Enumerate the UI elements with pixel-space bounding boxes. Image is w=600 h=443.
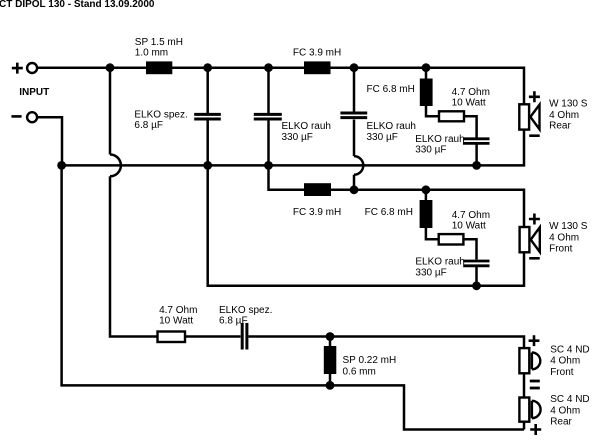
- wire left column down to bottom rail and jog to rear tweeter: [62, 165, 524, 429]
- node on front bottom rail at C5: [472, 281, 481, 290]
- svg-text:FC 6.8 mH: FC 6.8 mH: [367, 84, 415, 95]
- svg-text:SC 4 ND: SC 4 ND: [550, 344, 589, 355]
- svg-text:SP 0.22 mH: SP 0.22 mH: [343, 355, 397, 366]
- capacitor C1 ELKO spez 6.8uF (horizontal plates): [194, 114, 221, 119]
- plus sign front woofer: [529, 214, 540, 225]
- wire ELKO rauh C3 top lead: [353, 68, 356, 112]
- resistor 4.7 Ohm rear: [439, 111, 464, 121]
- wire ELKO rauh C2 top lead: [267, 68, 270, 113]
- svg-text:SC 4 ND: SC 4 ND: [550, 394, 589, 405]
- wire crossover hop of C3 lead over minus rail: [354, 156, 363, 175]
- svg-text:Front: Front: [550, 367, 574, 378]
- wire ELKO rauh C2 bottom lead: [267, 120, 270, 165]
- wire top rail from input plus to rear woofer top lead: [38, 68, 525, 105]
- node on minus rail at C2 / front rail tap: [264, 161, 273, 170]
- tweeter SC 4 ND front: [519, 348, 540, 373]
- svg-text:330 µF: 330 µF: [415, 145, 446, 156]
- svg-text:Front: Front: [549, 244, 573, 255]
- svg-text:ELKO spez.: ELKO spez.: [134, 109, 187, 120]
- wire ELKO rauh C3 bottom lead lower part: [353, 175, 356, 190]
- svg-text:4.7 Ohm: 4.7 Ohm: [452, 87, 490, 98]
- minus sign front woofer: [529, 257, 540, 260]
- svg-text:ELKO rauh: ELKO rauh: [367, 121, 416, 132]
- minus sign rear tweeter: [530, 387, 540, 390]
- tweeter SC 4 ND rear: [519, 398, 540, 422]
- speaker W 130 S rear: [519, 104, 539, 129]
- inductor FC 3.9 mH front: [304, 183, 331, 196]
- node on top rail at FC6.8 rear: [422, 63, 431, 72]
- svg-text:10 Watt: 10 Watt: [452, 220, 486, 231]
- wire link between front and rear tweeters: [523, 373, 526, 397]
- svg-text:FC 6.8 mH: FC 6.8 mH: [365, 207, 413, 218]
- node on minus rail at C4: [472, 161, 481, 170]
- node on top rail at plus branch: [106, 63, 115, 72]
- inductor SP 1.5 mH: [146, 61, 172, 74]
- capacitor C2 ELKO rauh 330uF (horizontal plates): [254, 114, 282, 119]
- inductor FC 6.8 mH front (vertical): [420, 200, 433, 228]
- svg-text:6.8 µF: 6.8 µF: [134, 120, 163, 131]
- svg-text:1.0 mm: 1.0 mm: [135, 48, 168, 59]
- svg-text:ELKO rauh: ELKO rauh: [415, 257, 464, 268]
- svg-text:ELKO rauh: ELKO rauh: [282, 121, 331, 132]
- minus sign input: [11, 115, 21, 118]
- wire ELKO rauh C3 bottom lead upper part: [353, 120, 356, 157]
- plus sign rear woofer: [529, 91, 540, 102]
- svg-text:330 µF: 330 µF: [282, 132, 313, 143]
- wire C4 bottom lead to minus rail: [475, 145, 478, 166]
- node on minus rail at C1: [203, 161, 212, 170]
- node on minus rail at input corner: [57, 161, 66, 170]
- svg-text:4 Ohm: 4 Ohm: [549, 110, 579, 121]
- wire rear branch: FC6.8 inductor chain to resistor and cap C4: [426, 68, 477, 138]
- svg-text:4.7 Ohm: 4.7 Ohm: [159, 305, 197, 316]
- inductor FC 6.8 mH rear (vertical): [420, 79, 433, 107]
- node on front rail at FC6.8 front: [422, 185, 431, 194]
- node on top rail at C2: [264, 63, 273, 72]
- svg-text:W 130 S: W 130 S: [549, 221, 588, 232]
- wire rear woofer bottom lead and minus rail y=165: [62, 130, 524, 166]
- wire from input minus terminal: [38, 117, 62, 165]
- capacitor C5 ELKO rauh 330uF front damping: [463, 261, 489, 266]
- node on top rail at C3: [350, 63, 359, 72]
- node on tweeter rail at SP0.22 top: [326, 332, 335, 341]
- svg-text:CT DIPOL 130 - Stand 13.09.200: CT DIPOL 130 - Stand 13.09.2000: [0, 0, 155, 10]
- wire crossover hop over minus rail: [110, 155, 121, 177]
- node on front rail at C3: [350, 185, 359, 194]
- svg-text:4 Ohm: 4 Ohm: [550, 405, 580, 416]
- minus sign front tweeter: [530, 380, 540, 383]
- wire C5 bottom lead to front bottom rail: [475, 267, 478, 286]
- wire ELKO spez C1 top lead: [206, 68, 209, 113]
- resistor 4.7 Ohm front: [439, 234, 464, 244]
- plus sign rear tweeter: [530, 424, 541, 435]
- svg-text:10 Watt: 10 Watt: [452, 97, 486, 108]
- capacitor C4 ELKO rauh 330uF rear damping: [463, 139, 490, 144]
- svg-text:330 µF: 330 µF: [415, 267, 446, 278]
- svg-text:4 Ohm: 4 Ohm: [550, 356, 580, 367]
- svg-text:Rear: Rear: [549, 121, 571, 132]
- wire rear tweeter bottom lead: [523, 422, 526, 430]
- svg-text:FC 3.9 mH: FC 3.9 mH: [293, 48, 341, 59]
- inductor SP 0.22 mH (vertical): [324, 346, 337, 374]
- svg-text:INPUT: INPUT: [19, 87, 49, 98]
- wire front branch: FC6.8 inductor chain to resistor and cap C5: [426, 190, 477, 260]
- svg-text:FC 3.9 mH: FC 3.9 mH: [293, 207, 341, 218]
- resistor 4.7 Ohm tweeter: [158, 332, 186, 343]
- node on bottom rail at SP0.22 bottom: [326, 381, 335, 390]
- plus sign front tweeter: [529, 335, 540, 346]
- capacitor C3 ELKO rauh 330uF (horizontal plates): [340, 113, 367, 118]
- wire SP 0.22 inductor branch: [329, 337, 332, 386]
- minus sign rear woofer: [529, 134, 540, 137]
- svg-text:6.8 µF: 6.8 µF: [219, 315, 248, 326]
- svg-text:Rear: Rear: [550, 416, 572, 427]
- terminal circle input minus: [27, 112, 37, 122]
- svg-text:ELKO spez.: ELKO spez.: [219, 305, 272, 316]
- wire ELKO spez C1 bottom lead down to front woofer bottom rail: [208, 120, 524, 285]
- node on top rail at C1: [203, 63, 212, 72]
- wire front section rail y=190 from minus rail to front woofer top lead: [269, 165, 525, 227]
- speaker W 130 S front: [520, 227, 540, 252]
- capacitor C6 ELKO spez 6.8uF (vertical plates): [242, 323, 247, 350]
- inductor FC 3.9 mH rear: [304, 61, 331, 74]
- svg-text:4 Ohm: 4 Ohm: [549, 232, 579, 243]
- svg-text:ELKO rauh: ELKO rauh: [415, 134, 464, 145]
- svg-text:W 130 S: W 130 S: [549, 99, 588, 110]
- wire plus branch vertical lower part to tweeter rail: [110, 176, 241, 336]
- wire plus branch vertical upper part: [109, 68, 112, 155]
- svg-text:SP 1.5 mH: SP 1.5 mH: [135, 37, 183, 48]
- terminal circle input plus: [27, 63, 37, 73]
- svg-text:330 µF: 330 µF: [367, 132, 398, 143]
- svg-text:0.6 mm: 0.6 mm: [343, 367, 376, 378]
- svg-text:10 Watt: 10 Watt: [159, 315, 193, 326]
- wire tweeter rail right of capacitor C6 to front tweeter top lead: [249, 337, 525, 349]
- plus sign input: [12, 63, 23, 74]
